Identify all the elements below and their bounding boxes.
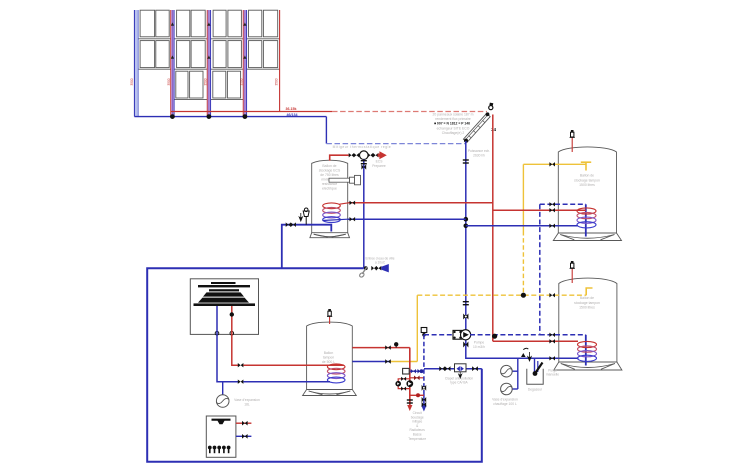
HP pipe grommet blue [215,331,219,335]
balancing valve on blue drop [422,385,427,391]
tank ECS preheat T2 vessel outline [307,322,353,389]
svg-text:10 m3/h: 10 m3/h [473,345,485,349]
degasser ball valve [535,363,543,374]
blue primary return riser [465,141,467,331]
solar blue header elbow down [325,117,327,144]
flanges on red distribution [407,399,413,400]
valve on yellow B1 line [549,162,555,166]
tank B1 internal return drop pipe [585,204,587,236]
heating circulation pump [453,330,462,339]
svg-text:stockage ECS: stockage ECS [319,169,341,173]
yellow recirculation drop [416,295,418,361]
svg-text:echangeur SITE ECO: echangeur SITE ECO [437,126,470,130]
junction riser 3 bottom [207,114,212,119]
svg-text:de 750 litres: de 750 litres [320,173,339,177]
bypass valve red [410,377,424,379]
boiler blue stub [236,435,252,437]
tank B1 coil [577,208,596,214]
red distribution arrow [407,405,412,411]
blue return from B1 coil [466,225,578,227]
recirculation loop around pump [398,379,410,389]
tank T2 safety valve [329,316,331,324]
svg-text:Temperature: Temperature [408,437,426,441]
safety group on cold feed [305,217,307,225]
svg-text:20 panneaux solaire 187 m: 20 panneaux solaire 187 m [433,113,474,117]
svg-text:Preparee: Preparee [372,164,386,168]
expansion vessels drop [517,358,519,389]
plate heat exchanger (diagonal) [463,113,490,142]
sensor bulb on T2 hot line [394,342,398,346]
svg-text:type CA/ BA: type CA/ BA [450,381,468,385]
blue return from T1 coil [348,218,466,220]
loop pump small [395,381,401,387]
tank buffer B1 vessel outline [558,147,616,233]
valve below mixing pump [361,160,367,161]
valve blue B2 coil [549,356,555,360]
mixing valve to heating circuit [410,370,424,372]
svg-text:1500 litres: 1500 litres [579,183,595,187]
svg-text:3500: 3500 [130,78,134,85]
ECS outlet arrow [378,151,387,159]
svg-text:36.15k: 36.15k [286,107,297,111]
svg-text:Ballon: Ballon [324,351,334,355]
red-blue link at bottom [410,394,424,396]
HP red supply to tank T2 coil [243,364,344,366]
disconnector device [455,364,467,372]
svg-text:18L: 18L [244,402,250,406]
junction blue return / buffer1 coil return [464,224,469,229]
svg-text:stockage tampon: stockage tampon [574,178,600,182]
heat pump blue outlet pipe [217,306,238,382]
tank ECS storage T1 vessel outline [312,160,348,233]
degasser feed drop [534,358,536,374]
svg-text:tampon: tampon [323,356,334,360]
blue dashed return into tank B1 [540,203,586,205]
svg-text:a 10oC: a 10oC [375,261,386,265]
tank T1 immersion heater nozzle box [350,177,355,183]
tank T1 solar coil [323,203,341,209]
valve below pump [463,342,468,348]
water supply horn [381,264,389,272]
tank ECS preheat T2 base skirt [303,390,357,396]
tank B2 coil [578,341,597,347]
boiler red stub [236,422,252,424]
sensor junction dot [492,334,497,339]
flanged union on blue return [463,159,469,160]
solar riser pipe 3 (red+blue pair) [207,10,211,117]
isolation flanges on blue riser [463,301,469,302]
drain valve on blue B2 line [521,353,526,357]
tank B2 heating draw internal elbow [586,288,592,295]
tank buffer B2 base skirt [554,362,622,370]
heating dashed pipe after pump [470,334,540,336]
solar riser pipe left (blue supply) [134,10,138,117]
heat exchanger end fitting top / motor valve [489,106,493,110]
svg-text:chauffage 100 L: chauffage 100 L [493,402,517,406]
solar collector panels row 1 [140,10,155,37]
valve on HP red line [238,363,244,367]
solar riser pipe 2 (red+blue pair) [171,10,175,117]
double valve on cold feed [286,222,291,227]
blue dashed drop to pump line [539,204,541,334]
heat exchanger end fitting bottom [464,139,468,143]
backflow disconnector feed line [424,368,482,370]
tank B2 safety valve [571,268,573,283]
junction blue return / ECS coil return [464,217,469,222]
heat pump cabinet [190,279,258,335]
svg-text:46/134: 46/134 [287,113,298,117]
balancing valve on blue riser [463,314,468,320]
blue circuit arrow [421,406,426,412]
solar collector header pipe red [171,111,332,113]
valve on T1 coil return [350,217,356,221]
tank buffer B2 vessel outline [559,278,617,362]
red hot water out of tank T1 top [330,155,349,160]
double valve on blue drop [422,397,427,402]
hot water distribution drop (red) [409,348,411,409]
svg-text:Puissance ech.: Puissance ech. [468,149,490,153]
tank T1 immersion heater element [329,178,350,182]
svg-text:24: 24 [491,127,496,132]
valve on B1 return [549,202,555,206]
blue return below pump to elbow [466,340,559,359]
heating circuit dashed pipe to pump [424,334,453,336]
valve blue B1 coil [549,224,555,228]
svg-text:1500 litres: 1500 litres [579,306,595,310]
heating circuit drop (blue) [423,335,425,392]
svg-text:rendement flux primaire: rendement flux primaire [435,117,471,121]
cold water supply bottom of T1 [282,225,332,269]
valve on HP blue line [238,380,244,384]
T1 coil blue bottom link [322,219,347,220]
svg-text:Ballon de: Ballon de [580,174,594,178]
red solar supply to B1 coil [493,209,586,211]
boiler heating elements [208,446,212,450]
expansion vessel drop from HP return [222,382,224,397]
svg-text:3500: 3500 [274,78,278,85]
air vent at heating line start [421,328,427,333]
expansion vessel gauge HP [216,395,229,408]
yellow drop pipe solid part [522,164,524,231]
boiler burner symbol [212,419,231,425]
thermostat control box [403,368,410,374]
svg-text:Ballon de: Ballon de [322,164,336,168]
yellow dashed heating supply from tank B2 [417,294,586,296]
drain arrow at safety group [299,213,302,221]
valve pair on ECS hot line [349,153,354,157]
degasser open tank [527,369,543,384]
svg-text:■ 007 = N 1812 = P 146: ■ 007 = N 1812 = P 146 [434,122,470,126]
main distribution pump [406,380,413,387]
solar collector header pipe blue [134,116,326,118]
yellow recirc elbow to mixing station [390,361,417,363]
drain arrow [528,352,531,361]
riser flow arrows [171,22,174,25]
svg-text:Degazeur: Degazeur [528,388,543,392]
blue return into tank B2 from coil [559,357,579,359]
tank B2 internal return drop pipe [585,335,587,366]
valve on T2 hot line [385,345,391,349]
valve red B2 coil [549,339,555,343]
solar riser pipe right (red return) [279,10,281,112]
red primary elbow to tank B coil [493,340,559,342]
svg-text:3500: 3500 [240,78,244,85]
red supply into tank B2 to coil [559,340,578,342]
tank B1 safety valve [571,137,573,152]
red solar supply to T1 coil [349,202,493,204]
cold water feed drop below mixing pump [363,160,365,269]
thermostatic mixing pump [360,151,369,160]
valve on T1 coil supply [350,201,356,205]
tank buffer B1 base skirt [553,233,621,241]
svg-text:3500: 3500 [167,78,171,85]
valve on T2 recirc [385,359,391,363]
svg-text:stockage tampon: stockage tampon [574,301,600,305]
svg-text:Chauffage(e) 2: Chauffage(e) 2 [442,131,465,135]
svg-text:manuelle: manuelle [546,373,559,377]
solar collector panels row 2 [140,41,155,68]
HP pipe grommet red [230,331,234,335]
red primary drop pipe from exchanger [492,115,494,342]
svg-text:electrique: electrique [322,187,337,191]
svg-text:3500: 3500 [204,78,208,85]
svg-text:2630 l/h: 2630 l/h [473,154,485,158]
HP blue return from tank T2 coil [243,381,330,383]
heat pump red outlet pipe [232,306,238,365]
solar collector array frame rails [135,38,280,40]
blue dashed return into tank B2 [540,334,586,336]
svg-text:Ballon de: Ballon de [580,296,594,300]
tank T2 coil [327,364,345,370]
fill valve with handle [364,266,368,270]
solar riser pipe 4 (red+blue pair) [243,10,247,117]
solar blue dashed run to heat exchanger [326,143,465,145]
valve on B2 return [549,333,555,337]
red hot out of tank T2 [352,347,410,349]
blue recirc return to T2 [352,361,390,363]
tank T1 coil red supply stub [340,203,349,204]
valve red B1 coil [549,208,555,212]
solar collector panels row 3 [176,71,188,98]
tank ECS storage T1 base skirt [310,233,350,238]
heat pump unit symbol [194,282,256,306]
valve pair after pump [368,153,374,158]
electric backup boiler cabinet [206,416,236,457]
svg-text:Mitigeur thermostatique regle: Mitigeur thermostatique regle [333,145,392,149]
junction yellow lines [521,293,526,298]
junction riser 4 bottom [243,114,248,119]
tank B1 heating draw internal tee [581,161,591,163]
valve on yellow B2 line [549,293,555,297]
yellow drop pipe dashed part [522,231,524,295]
solar header red dashed continuation to heat exchanger [332,111,487,113]
expansion vessel 2 [512,388,518,390]
junction riser 2 bottom [170,114,175,119]
svg-text:resistance: resistance [322,182,338,186]
expansion vessel 1 [512,370,518,372]
valves at disconnector [439,366,445,371]
yellow heating supply from tank B1 [523,163,586,165]
city water main loop (left/bottom/right) [147,268,482,462]
check valve on HP red pipe [230,312,234,316]
